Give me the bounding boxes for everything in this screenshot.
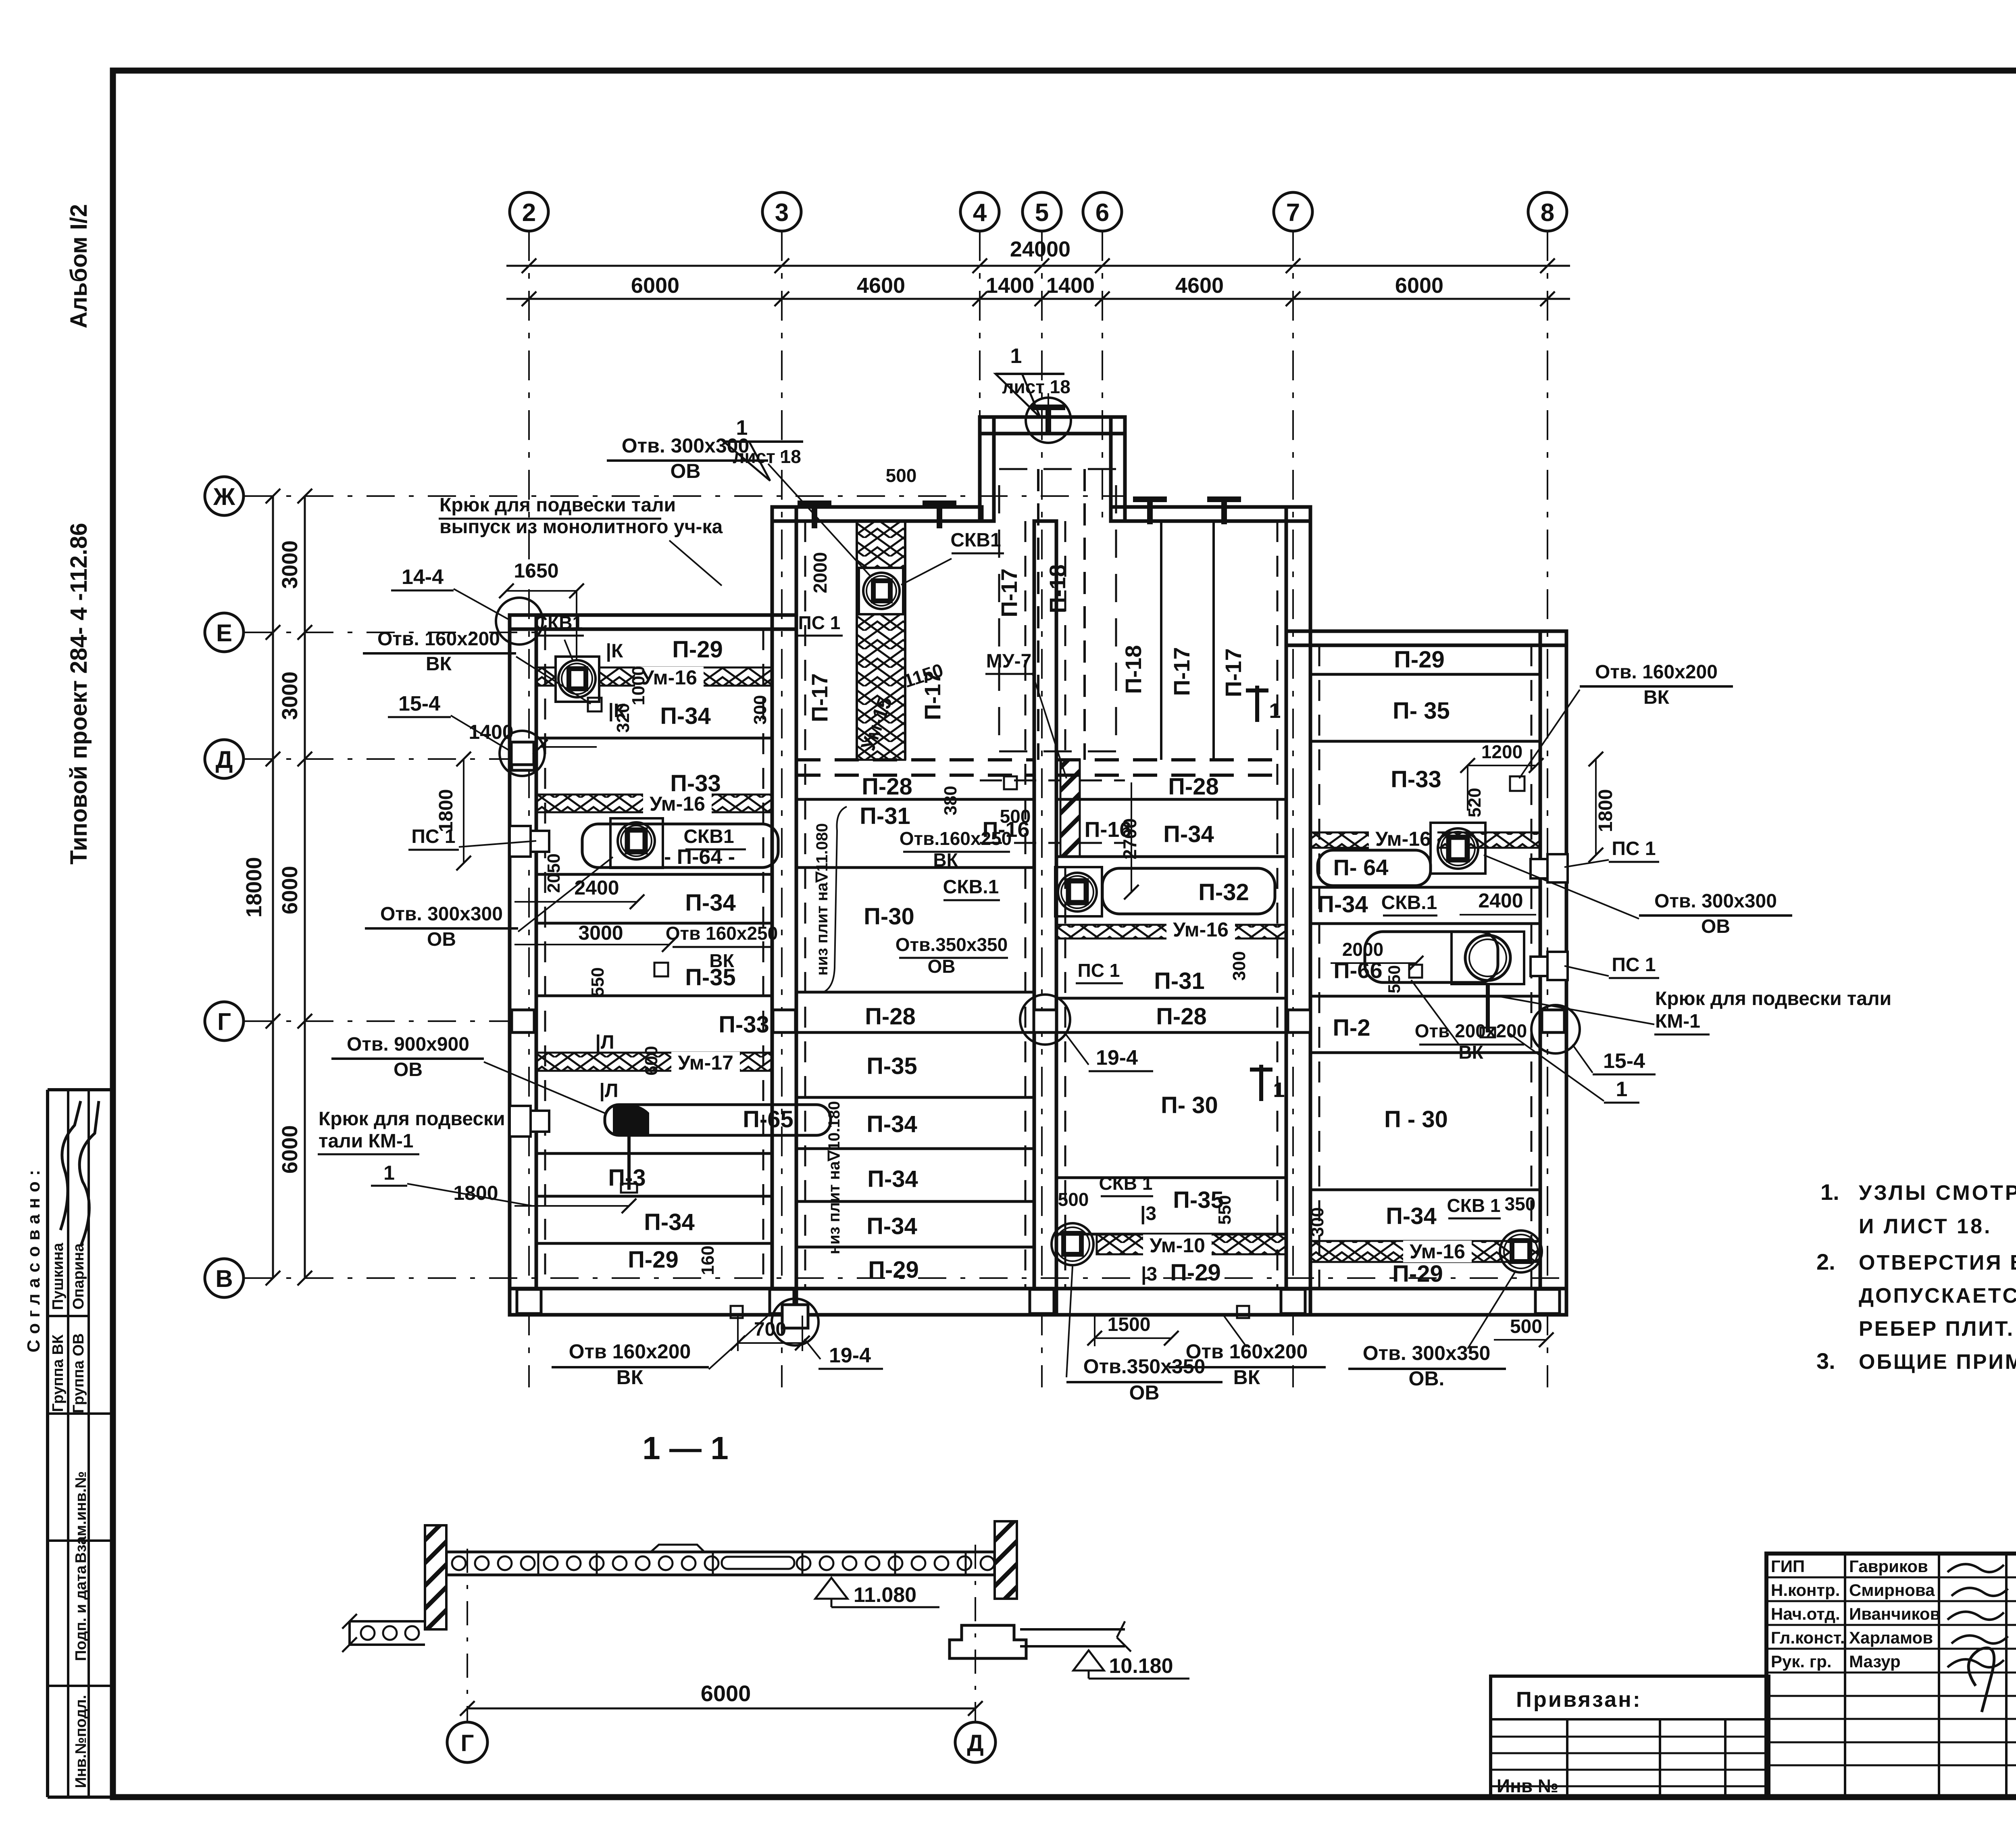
bay edge dashed lines xyxy=(544,629,546,1289)
bay A hatch strip UM-17 xyxy=(536,1053,772,1071)
bay B P-31 row xyxy=(796,866,1034,869)
svg-text:МУ-7: МУ-7 xyxy=(986,651,1032,672)
svg-text:Отв. 160х200: Отв. 160х200 xyxy=(1595,661,1718,683)
bay B SKV1 detail in UM-15 xyxy=(859,568,903,614)
svg-text:П-34: П-34 xyxy=(866,1111,917,1137)
svg-text:Рук. гр.: Рук. гр. xyxy=(1771,1652,1832,1671)
svg-text:П-33: П-33 xyxy=(1391,766,1441,792)
detail circle 15-4 right wall xyxy=(1531,1005,1580,1053)
bay E P-66 row with hook detail xyxy=(1365,932,1498,982)
section 1-1 top ridge piece xyxy=(651,1545,704,1552)
svg-text:1: 1 xyxy=(1010,344,1022,368)
axis extension lines down from circles xyxy=(528,231,530,1387)
bay E hatch strip UM-16 bottom xyxy=(1310,1241,1540,1262)
svg-text:350: 350 xyxy=(1505,1193,1536,1214)
svg-text:П- 35: П- 35 xyxy=(1393,698,1450,724)
svg-text:ПС 1: ПС 1 xyxy=(1612,954,1656,976)
svg-text:ОВ.: ОВ. xyxy=(1409,1367,1445,1390)
bay B P-28 second row xyxy=(796,1031,1034,1034)
sidebar stamp table xyxy=(48,1088,113,1091)
svg-text:Отв. 300х300: Отв. 300х300 xyxy=(622,434,750,457)
privyazan table xyxy=(1491,1676,1769,1797)
svg-text:П-29: П-29 xyxy=(1394,647,1445,673)
svg-text:550: 550 xyxy=(588,967,608,997)
plan mid-right top wall xyxy=(1111,507,1310,521)
dim 1500 bottom xyxy=(1095,1337,1171,1339)
svg-text:ОТВЕРСТИЯ В ПЛИТАХ РАЗМЕРОМ: ОТВЕРСТИЯ В ПЛИТАХ РАЗМЕРОМ 200х200 И МЕ… xyxy=(1859,1251,2016,1274)
svg-text:19-4: 19-4 xyxy=(1096,1046,1138,1070)
svg-text:1400: 1400 xyxy=(1046,273,1095,298)
svg-text:П-34: П-34 xyxy=(1317,891,1368,918)
svg-text:Альбом I/2: Альбом I/2 xyxy=(66,204,92,328)
svg-text:3000: 3000 xyxy=(278,540,302,589)
svg-text:320: 320 xyxy=(613,703,633,732)
left vertical dim chain 3000 3000 6000 6000 xyxy=(304,496,306,1278)
section 1-1 dim 6000 xyxy=(467,1708,975,1710)
svg-text:П- 64: П- 64 xyxy=(1333,855,1389,880)
svg-text:КМ-1: КМ-1 xyxy=(1655,1011,1700,1032)
svg-text:ПС 1: ПС 1 xyxy=(411,826,455,847)
svg-text:П-29: П-29 xyxy=(868,1257,919,1283)
svg-text:Отв. 300х300: Отв. 300х300 xyxy=(380,903,503,925)
bay D hatch strip UM-16 xyxy=(1056,925,1286,938)
section 1-1 level mark 10.180 xyxy=(1073,1650,1104,1671)
svg-text:Инв №: Инв № xyxy=(1497,1775,1558,1796)
svg-text:2050: 2050 xyxy=(544,853,564,893)
detail circle 19-4 center wall xyxy=(1020,995,1070,1045)
svg-text:П-17: П-17 xyxy=(1169,647,1194,696)
svg-text:Мазур: Мазур xyxy=(1849,1652,1901,1671)
bay D P-32 panel with SKV1 xyxy=(1055,867,1102,916)
svg-text:В: В xyxy=(215,1265,233,1292)
detail circle 15-4 left wall xyxy=(500,731,545,776)
svg-text:П-28: П-28 xyxy=(862,774,912,800)
svg-text:ВК: ВК xyxy=(933,849,958,870)
svg-text:П-65: П-65 xyxy=(743,1106,793,1132)
svg-text:СКВ.1: СКВ.1 xyxy=(1381,892,1437,913)
svg-text:П-33: П-33 xyxy=(719,1011,769,1038)
bay A PS1 wall plug upper xyxy=(510,826,531,857)
svg-text:П-34: П-34 xyxy=(1163,821,1214,847)
label otv 200x200 leader xyxy=(1411,980,1460,1045)
svg-text:И ЛИСТ 18.: И ЛИСТ 18. xyxy=(1859,1215,1992,1238)
svg-text:СКВ.1: СКВ.1 xyxy=(943,876,999,898)
sidebar signatures xyxy=(60,1101,81,1230)
svg-text:1 — 1: 1 — 1 xyxy=(642,1430,728,1466)
svg-text:Опарина: Опарина xyxy=(70,1243,87,1310)
svg-text:24000: 24000 xyxy=(1010,237,1070,261)
svg-text:П-66: П-66 xyxy=(1333,957,1382,983)
svg-text:550: 550 xyxy=(1215,1195,1235,1224)
svg-text:1: 1 xyxy=(383,1162,395,1184)
svg-text:низ плит на∇11.080: низ плит на∇11.080 xyxy=(813,823,831,976)
bay A P-64 panel with SKV1 detail xyxy=(582,824,778,868)
svg-text:Отв 200х200: Отв 200х200 xyxy=(1415,1020,1527,1041)
section 1-1 right wall hatched xyxy=(995,1521,1017,1599)
svg-text:П-29: П-29 xyxy=(628,1247,679,1273)
detail circle 19-4 axis3 bottom xyxy=(772,1299,818,1345)
svg-text:П- 30: П- 30 xyxy=(1161,1092,1218,1118)
svg-text:6000: 6000 xyxy=(1395,273,1443,298)
svg-text:300: 300 xyxy=(1229,951,1249,980)
svg-text:П - 30: П - 30 xyxy=(1384,1106,1448,1132)
svg-text:3: 3 xyxy=(775,199,789,227)
svg-text:Подп. и дата: Подп. и дата xyxy=(73,1565,90,1661)
svg-text:19-4: 19-4 xyxy=(829,1344,871,1367)
svg-text:1400: 1400 xyxy=(469,721,513,743)
svg-text:2700: 2700 xyxy=(1119,818,1140,859)
plan axis-3 wall xyxy=(772,507,796,1315)
svg-text:Гл.конст.: Гл.конст. xyxy=(1771,1628,1845,1647)
section 1-1 left wall hatched xyxy=(425,1525,446,1629)
svg-text:Привязан:: Привязан: xyxy=(1516,1687,1642,1712)
svg-text:|3: |3 xyxy=(1141,1264,1157,1285)
svg-text:Инв.№подл.: Инв.№подл. xyxy=(73,1695,90,1788)
svg-text:П-17: П-17 xyxy=(807,673,832,722)
svg-text:П-34: П-34 xyxy=(685,890,736,916)
svg-text:Отв.350х350: Отв.350х350 xyxy=(896,934,1008,955)
bottom wall axis connector squares xyxy=(517,1289,541,1314)
bay E P-64 panel with SKV1 xyxy=(1318,850,1431,886)
bay A PS1 wall plug lower xyxy=(510,1106,531,1137)
dim 500 bottom-right xyxy=(1494,1339,1546,1341)
svg-text:6: 6 xyxy=(1095,199,1109,227)
plan roof protrusion walls xyxy=(980,417,1125,434)
svg-text:ПС 1: ПС 1 xyxy=(1612,838,1656,859)
plan center wall axis 5-6 xyxy=(1034,521,1056,1315)
bay B P-30 row xyxy=(796,991,1034,994)
svg-text:ВК: ВК xyxy=(1458,1042,1483,1063)
svg-text:2.: 2. xyxy=(1816,1249,1835,1274)
svg-text:Д: Д xyxy=(967,1730,983,1756)
svg-text:П-34: П-34 xyxy=(866,1213,917,1239)
section 1-1 slab band with cores xyxy=(446,1551,995,1554)
svg-text:500: 500 xyxy=(1058,1189,1089,1210)
top dimension line segments xyxy=(506,298,1570,300)
svg-text:Ум-16: Ум-16 xyxy=(1410,1240,1465,1263)
plan bottom wall xyxy=(510,1289,1566,1315)
svg-text:Г: Г xyxy=(217,1008,231,1035)
svg-text:СКВ 1: СКВ 1 xyxy=(1099,1173,1153,1194)
svg-text:6000: 6000 xyxy=(631,273,679,298)
svg-text:Отв 160х250: Отв 160х250 xyxy=(666,923,778,944)
bay B P-28 band xyxy=(796,758,1034,761)
svg-text:П-29: П-29 xyxy=(672,636,723,663)
svg-text:П-2: П-2 xyxy=(1333,1015,1370,1041)
svg-text:ПС 1: ПС 1 xyxy=(798,612,841,633)
plan right section top wall xyxy=(1286,631,1566,645)
svg-text:П-28: П-28 xyxy=(865,1003,916,1030)
svg-text:1: 1 xyxy=(1273,1078,1285,1102)
svg-text:300: 300 xyxy=(1308,1207,1327,1237)
bay D P-34 row with 2700 xyxy=(1056,855,1286,858)
svg-text:6000: 6000 xyxy=(278,866,302,914)
svg-text:П-33: П-33 xyxy=(670,770,721,797)
svg-text:18000: 18000 xyxy=(242,857,266,918)
dim 700 bottom xyxy=(738,1342,802,1344)
bay D P-30 big row xyxy=(1056,1176,1286,1179)
svg-text:700: 700 xyxy=(754,1319,786,1340)
svg-text:|Л: |Л xyxy=(599,1080,618,1101)
svg-text:8: 8 xyxy=(1541,199,1554,227)
section 1-1 slab joints xyxy=(537,1552,539,1575)
right vertical dim 1800 xyxy=(1595,759,1597,855)
bay D section mark 1 top xyxy=(1255,686,1259,722)
svg-text:Ж: Ж xyxy=(213,483,235,510)
section 1-1 lower left slab xyxy=(350,1620,425,1623)
plan outer wall left section top xyxy=(510,615,796,629)
svg-text:ВК: ВК xyxy=(616,1366,644,1389)
bay D SKV circle at UM-10 xyxy=(1052,1223,1093,1265)
svg-text:СКВ 1: СКВ 1 xyxy=(1447,1195,1501,1216)
svg-text:1800: 1800 xyxy=(1595,789,1616,832)
svg-text:15-4: 15-4 xyxy=(1603,1049,1645,1073)
bay D P-31 row xyxy=(1056,997,1286,1000)
svg-text:Отв 160х200: Отв 160х200 xyxy=(1186,1340,1308,1363)
svg-text:тали КМ-1: тали КМ-1 xyxy=(319,1130,414,1152)
svg-text:ОВ: ОВ xyxy=(394,1059,423,1080)
svg-text:1: 1 xyxy=(1269,699,1281,723)
bay D hatch strip UM-10 xyxy=(1097,1234,1286,1254)
svg-text:520: 520 xyxy=(1465,788,1485,817)
bay B vertical panels P-17 UM-15 P-17 xyxy=(856,521,858,760)
title block outer xyxy=(1766,1554,2016,1797)
svg-text:П-16: П-16 xyxy=(983,818,1030,842)
svg-text:П-30: П-30 xyxy=(864,903,914,930)
svg-text:Крюк для подвески: Крюк для подвески xyxy=(319,1108,505,1130)
section 1-1 axis circle D xyxy=(955,1722,996,1762)
svg-text:ВК: ВК xyxy=(1643,687,1670,708)
svg-text:6000: 6000 xyxy=(278,1125,302,1174)
left axis circles Zh E D G V xyxy=(205,477,244,515)
section 1-1 axis lines xyxy=(467,1549,468,1722)
svg-text:П-28: П-28 xyxy=(1168,774,1219,800)
svg-text:5: 5 xyxy=(1035,199,1049,227)
svg-text:ОВ: ОВ xyxy=(671,460,701,482)
section 1-1 right foundation xyxy=(950,1625,1026,1658)
bay A dim 1800 bottom xyxy=(514,1205,629,1207)
svg-text:2000: 2000 xyxy=(810,552,831,593)
svg-text:ГИП: ГИП xyxy=(1771,1557,1805,1576)
label 1800 vertical left xyxy=(463,759,464,863)
svg-text:3000: 3000 xyxy=(578,922,623,944)
svg-text:160: 160 xyxy=(698,1245,718,1275)
svg-text:РЕБЕР ПЛИТ.: РЕБЕР ПЛИТ. xyxy=(1859,1317,2014,1341)
svg-text:Смирнова: Смирнова xyxy=(1849,1581,1935,1600)
svg-text:500: 500 xyxy=(1510,1316,1542,1337)
svg-text:Ум-10: Ум-10 xyxy=(1150,1234,1205,1257)
section 1-1 level mark 11.080 xyxy=(815,1578,848,1599)
bay A hatch strip UM-16 top xyxy=(536,667,772,686)
svg-text:3.: 3. xyxy=(1816,1348,1835,1374)
svg-text:2: 2 xyxy=(522,199,536,227)
P-16 cells under protrusion xyxy=(980,780,1060,782)
svg-text:П-29: П-29 xyxy=(1392,1261,1443,1287)
bay D section mark 1 bottom xyxy=(1259,1065,1263,1101)
svg-text:П-17: П-17 xyxy=(996,568,1022,617)
svg-text:Г: Г xyxy=(461,1730,474,1756)
section 1-1 axis circle G xyxy=(447,1722,487,1762)
svg-text:2000: 2000 xyxy=(1342,939,1383,960)
svg-text:низ плит на∇10.180: низ плит на∇10.180 xyxy=(825,1101,843,1254)
svg-text:Д: Д xyxy=(216,746,233,773)
left vertical dim chain 18000 xyxy=(272,496,274,1278)
bay A dim 3000 xyxy=(514,944,669,945)
svg-text:1200: 1200 xyxy=(1481,741,1522,762)
svg-text:СКВ1: СКВ1 xyxy=(950,530,1001,551)
svg-text:Иванчиков: Иванчиков xyxy=(1849,1604,1940,1623)
svg-text:Отв 160х200: Отв 160х200 xyxy=(569,1340,691,1363)
svg-text:ПС 1: ПС 1 xyxy=(1078,960,1120,981)
svg-text:П-34: П-34 xyxy=(867,1166,918,1192)
svg-text:ОВ: ОВ xyxy=(1701,916,1730,937)
bay B P-35 P-34 rows xyxy=(796,1096,1034,1099)
svg-text:П-17: П-17 xyxy=(1220,648,1246,697)
svg-text:ДОПУСКАЕТСЯ ПРОБИВАТЬ ПО МЕ: ДОПУСКАЕТСЯ ПРОБИВАТЬ ПО МЕСТУ НЕ ЗАДЕВА… xyxy=(1859,1284,2016,1308)
bay D P-28 band xyxy=(1056,758,1286,761)
svg-text:ВК: ВК xyxy=(709,950,734,971)
svg-text:|К: |К xyxy=(606,640,623,662)
svg-text:Ум-16: Ум-16 xyxy=(1375,828,1431,850)
svg-text:1: 1 xyxy=(1616,1078,1628,1101)
svg-text:Отв. 900х900: Отв. 900х900 xyxy=(347,1034,469,1055)
svg-text:ВК: ВК xyxy=(1233,1366,1260,1389)
bay A panel lines xyxy=(536,737,772,740)
svg-text:СКВ1: СКВ1 xyxy=(683,826,734,847)
svg-text:Ум-17: Ум-17 xyxy=(678,1051,733,1074)
svg-text:3000: 3000 xyxy=(278,672,302,720)
bay E hatch strip UM-16 top xyxy=(1310,832,1540,848)
svg-text:П-28: П-28 xyxy=(1156,1003,1207,1030)
plan mid-left top wall xyxy=(772,507,982,521)
svg-text:600: 600 xyxy=(641,1046,661,1075)
svg-text:Нач.отд.: Нач.отд. xyxy=(1771,1604,1840,1623)
svg-text:Н.контр.: Н.контр. xyxy=(1771,1581,1840,1600)
vent symbols on walls xyxy=(1026,398,1071,443)
bay E SKV circle bottom xyxy=(1500,1230,1542,1272)
svg-text:П-18: П-18 xyxy=(1045,564,1070,613)
svg-text:П-18: П-18 xyxy=(1120,645,1146,694)
svg-text:П-31: П-31 xyxy=(1154,968,1205,994)
svg-text:1650: 1650 xyxy=(514,559,558,582)
svg-text:Группа ВК: Группа ВК xyxy=(50,1334,67,1412)
svg-text:1000: 1000 xyxy=(629,666,648,705)
detail circle 14-4 top-left corner xyxy=(496,598,543,644)
svg-text:Ум-16: Ум-16 xyxy=(641,666,697,689)
svg-text:П-35: П-35 xyxy=(866,1053,917,1079)
svg-text:Ум-16: Ум-16 xyxy=(1173,918,1229,941)
svg-text:1400: 1400 xyxy=(986,273,1034,298)
svg-text:- П-64 -: - П-64 - xyxy=(664,845,735,869)
svg-text:14-4: 14-4 xyxy=(402,565,444,589)
svg-text:6000: 6000 xyxy=(701,1681,751,1706)
svg-text:500: 500 xyxy=(886,465,917,486)
svg-text:Отв. 300х300: Отв. 300х300 xyxy=(1654,891,1777,912)
svg-text:П-34: П-34 xyxy=(644,1209,695,1235)
svg-text:лист 18: лист 18 xyxy=(1002,376,1070,397)
svg-text:4600: 4600 xyxy=(1175,273,1224,298)
svg-text:380: 380 xyxy=(941,786,960,815)
svg-text:4: 4 xyxy=(973,199,987,227)
top axis circles 2-8 xyxy=(510,192,548,231)
bay A P-65 panel with hook xyxy=(605,1105,831,1135)
top dimension line 24000 xyxy=(506,265,1570,267)
svg-text:П-34: П-34 xyxy=(660,703,711,729)
svg-text:УЗЛЫ СМОТРИ СЕРИЮ 1 020-1/8: УЗЛЫ СМОТРИ СЕРИЮ 1 020-1/83 ВЫПУСК 6-1 xyxy=(1859,1181,2016,1205)
dim 160 bottom xyxy=(731,1306,743,1318)
svg-text:Согласовано:: Согласовано: xyxy=(24,1164,44,1353)
svg-text:Взам.инв.№: Взам.инв.№ xyxy=(73,1471,90,1563)
svg-text:П-31: П-31 xyxy=(860,803,910,829)
plan left wall xyxy=(510,615,536,1315)
svg-text:1.: 1. xyxy=(1820,1179,1839,1205)
bay D vertical panels P-18 P-17 P-17 xyxy=(1160,521,1162,760)
plan right wall xyxy=(1540,631,1566,1315)
svg-text:4600: 4600 xyxy=(857,273,905,298)
bay E panel lines xyxy=(1310,673,1540,676)
svg-text:ОБЩИЕ ПРИМЕЧАНИЯ СМ. ЛИСТ 2: ОБЩИЕ ПРИМЕЧАНИЯ СМ. ЛИСТ 22. xyxy=(1859,1350,2016,1374)
svg-text:1500: 1500 xyxy=(1108,1314,1151,1335)
svg-text:300: 300 xyxy=(750,695,770,724)
svg-text:Отв. 300х350: Отв. 300х350 xyxy=(1363,1342,1491,1364)
bay A hatch strip UM-16 mid xyxy=(536,795,772,812)
svg-text:П-34: П-34 xyxy=(1386,1203,1437,1229)
plan axis-7 wall xyxy=(1286,507,1310,1315)
bay E PS1 wall plug upper xyxy=(1547,854,1568,882)
svg-text:Крюк для подвески тали: Крюк для подвески тали xyxy=(439,494,676,516)
svg-text:7: 7 xyxy=(1286,199,1300,227)
svg-text:10.180: 10.180 xyxy=(1109,1654,1173,1678)
wall axis connector squares xyxy=(512,1010,534,1032)
left axis horizontal lines xyxy=(244,495,1125,497)
svg-text:2400: 2400 xyxy=(1478,889,1523,912)
svg-text:Гавриков: Гавриков xyxy=(1849,1557,1928,1576)
svg-text:Отв. 160х200: Отв. 160х200 xyxy=(377,628,500,650)
bay A dim 2400 xyxy=(514,901,637,903)
svg-text:ОВ: ОВ xyxy=(928,956,956,977)
svg-text:ВК: ВК xyxy=(426,653,452,675)
svg-text:Типовой проект 284- 4 -112.86: Типовой проект 284- 4 -112.86 xyxy=(66,523,92,864)
bay D P-35 row xyxy=(1056,1233,1286,1236)
svg-text:Группа ОВ: Группа ОВ xyxy=(70,1333,87,1414)
svg-text:2400: 2400 xyxy=(574,876,619,899)
svg-text:|3: |3 xyxy=(1140,1203,1156,1224)
svg-text:15-4: 15-4 xyxy=(398,692,440,715)
MU-7 vent shaft hatch xyxy=(1060,760,1080,857)
protrusion interior panels P-17 P-18 xyxy=(1037,469,1039,760)
svg-text:Харламов: Харламов xyxy=(1849,1628,1933,1647)
title block staff rows xyxy=(1766,1577,2016,1579)
bay D P-28 row xyxy=(1056,1031,1286,1034)
title block signatures xyxy=(1947,1564,2004,1572)
section 1-1 plain panel P-65 cut xyxy=(722,1557,794,1569)
svg-text:ОВ: ОВ xyxy=(1129,1381,1160,1404)
svg-text:Крюк для подвески тали: Крюк для подвески тали xyxy=(1655,988,1891,1009)
svg-text:550: 550 xyxy=(1385,965,1404,993)
svg-text:|Л: |Л xyxy=(595,1032,614,1053)
svg-text:ОВ: ОВ xyxy=(427,929,456,950)
svg-text:Пушкина: Пушкина xyxy=(50,1243,67,1310)
svg-text:П-32: П-32 xyxy=(1198,879,1249,905)
svg-text:11.080: 11.080 xyxy=(854,1583,916,1607)
bay E PS1 wall plug lower xyxy=(1547,952,1568,980)
svg-text:Е: Е xyxy=(216,619,232,647)
dim 500 mid xyxy=(1044,1212,1089,1212)
svg-text:П-29: П-29 xyxy=(1170,1260,1221,1286)
svg-text:П-3: П-3 xyxy=(608,1165,646,1191)
